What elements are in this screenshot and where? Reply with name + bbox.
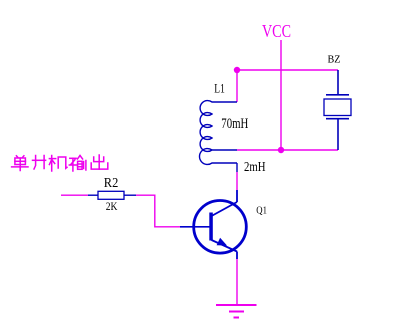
- char 出: [91, 155, 108, 169]
- transistor Q1 emitter line: [212, 240, 238, 252]
- resistor R2 left wire: [61, 194, 88, 196]
- resistor R2 left pin: [88, 194, 98, 196]
- wire VCC drop to inductor: [236, 70, 238, 102]
- ground symbol bar 1: [216, 304, 257, 306]
- char 片: [33, 156, 46, 170]
- svg-text:L1: L1: [214, 82, 225, 96]
- svg-text:70mH: 70mH: [221, 116, 248, 132]
- transistor Q1 emitter pin blue segment: [236, 252, 238, 260]
- inductor L1 2mH winding: [200, 149, 238, 165]
- char 单: [12, 156, 28, 171]
- junction dot at top rail left: [234, 67, 240, 73]
- buzzer BZ body rectangle: [324, 99, 351, 116]
- buzzer BZ bottom pin: [337, 120, 339, 151]
- buzzer BZ top plate: [326, 94, 349, 96]
- label microcontroller output (Chinese): [12, 155, 108, 171]
- wire inductor to collector: [236, 172, 238, 190]
- wire bottom rail horizontal: [237, 149, 338, 151]
- char 机: [49, 156, 67, 172]
- svg-text:Q1: Q1: [256, 205, 267, 217]
- transistor Q1 collector pin vertical: [236, 190, 238, 202]
- svg-text:2mH: 2mH: [244, 160, 266, 175]
- resistor R2 body: [98, 191, 124, 199]
- wire R2 to base: horizontal, down, right: [136, 195, 180, 227]
- transistor Q1 base pin blue segment: [180, 226, 210, 228]
- transistor Q1 collector line: [212, 202, 238, 216]
- transistor Q1 base bar: [209, 213, 213, 241]
- junction dot at bottom rail: [278, 147, 284, 153]
- resistor R2 right pin: [124, 194, 136, 196]
- svg-text:2K: 2K: [106, 201, 118, 213]
- svg-text:R2: R2: [104, 175, 119, 190]
- wire VCC stem vertical: [280, 40, 282, 150]
- char 输: [69, 156, 86, 172]
- inductor L1 70mH winding: [200, 101, 237, 152]
- wire top rail horizontal: [237, 69, 338, 71]
- inductor bottom pin blue segment: [236, 163, 238, 172]
- buzzer BZ top pin: [337, 70, 339, 95]
- ground symbol bar 2: [229, 311, 244, 313]
- svg-text:BZ: BZ: [328, 53, 341, 65]
- transistor Q1 circle: [194, 201, 247, 254]
- ground symbol bar 3: [234, 317, 240, 319]
- transistor Q1 emitter arrow: [217, 238, 227, 246]
- svg-text:VCC: VCC: [262, 21, 291, 41]
- wire emitter to ground: [236, 259, 238, 305]
- buzzer BZ bottom plate: [326, 118, 349, 120]
